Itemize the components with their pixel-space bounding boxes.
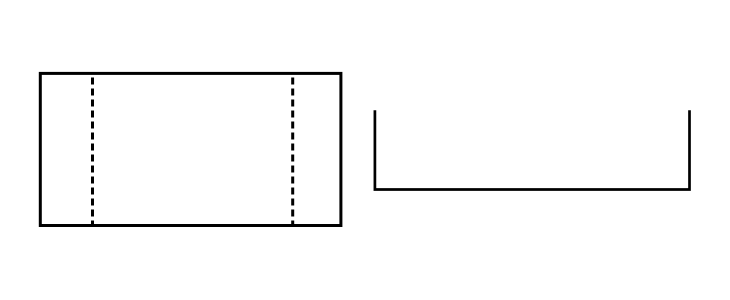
- u-channel (open-top bracket, right figure): [375, 110, 690, 189]
- left dashed vertical line inside box: [91, 78, 94, 225]
- rectangle outline (solid box, left figure): [40, 73, 341, 225]
- right dashed vertical line inside box: [291, 78, 294, 225]
